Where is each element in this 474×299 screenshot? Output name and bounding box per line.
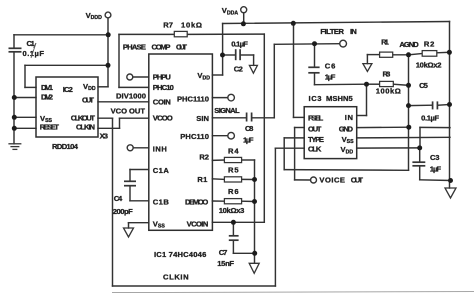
- svg-text:DIV1000: DIV1000: [116, 92, 146, 101]
- svg-text:IC1 74HC4046: IC1 74HC4046: [154, 250, 206, 259]
- svg-text:200pF: 200pF: [113, 207, 133, 216]
- svg-text:10kΩx3: 10kΩx3: [219, 206, 245, 215]
- svg-text:VOICE: VOICE: [319, 176, 345, 185]
- svg-text:C8: C8: [245, 124, 253, 133]
- svg-text:R5: R5: [228, 166, 239, 175]
- svg-text:FSEL: FSEL: [308, 113, 324, 122]
- svg-text:DIV2: DIV2: [41, 92, 53, 101]
- svg-text:DIV1: DIV1: [41, 83, 54, 92]
- svg-text:AGND: AGND: [399, 40, 419, 49]
- svg-text:0.1µF: 0.1µF: [421, 113, 439, 122]
- svg-text:100kΩ: 100kΩ: [376, 86, 401, 95]
- svg-text:R4: R4: [228, 147, 239, 156]
- svg-text:R6: R6: [228, 187, 239, 196]
- svg-text:PHASE: PHASE: [123, 42, 146, 51]
- svg-text:FILTER: FILTER: [320, 27, 344, 36]
- svg-text:RESET: RESET: [40, 122, 60, 131]
- svg-text:PHC10: PHC10: [153, 83, 174, 92]
- svg-text:MSHN5: MSHN5: [326, 94, 353, 103]
- svg-text:CLK: CLK: [308, 145, 322, 154]
- svg-text:IN: IN: [345, 113, 353, 122]
- svg-text:C5: C5: [419, 81, 429, 90]
- svg-text:PHPU: PHPU: [153, 72, 172, 81]
- svg-text:15nF: 15nF: [217, 259, 234, 268]
- svg-text:X3: X3: [100, 132, 108, 141]
- svg-text:VCO OUT: VCO OUT: [111, 107, 146, 116]
- svg-text:GND: GND: [339, 124, 354, 133]
- svg-text:IC3: IC3: [309, 94, 322, 103]
- svg-text:1µF: 1µF: [430, 165, 442, 174]
- svg-text:CLKIN: CLKIN: [163, 273, 189, 282]
- svg-text:IC2: IC2: [63, 85, 73, 94]
- svg-text:1µF: 1µF: [243, 135, 254, 144]
- svg-text:OUT: OUT: [308, 124, 322, 133]
- svg-text:CLKOUT: CLKOUT: [71, 113, 96, 122]
- svg-text:PHC110: PHC110: [180, 132, 209, 141]
- svg-text:C3: C3: [430, 153, 440, 162]
- svg-text:PHC1110: PHC1110: [177, 95, 209, 104]
- svg-text:1µF: 1µF: [325, 72, 336, 81]
- svg-text:VCOIN: VCOIN: [187, 219, 209, 228]
- svg-text:CLKIN: CLKIN: [76, 122, 95, 131]
- svg-text:INH: INH: [153, 144, 167, 153]
- svg-text:C6: C6: [325, 61, 336, 70]
- svg-text:COIN: COIN: [153, 97, 171, 106]
- svg-text:R1: R1: [381, 37, 390, 46]
- svg-text:SIN: SIN: [196, 114, 209, 123]
- svg-text:C1A: C1A: [153, 166, 170, 175]
- svg-text:TYPE: TYPE: [308, 135, 324, 144]
- svg-text:R1: R1: [197, 175, 208, 184]
- svg-text:R7: R7: [163, 20, 173, 29]
- svg-text:C4: C4: [114, 194, 123, 203]
- svg-text:RDD104: RDD104: [52, 142, 79, 151]
- svg-text:IN: IN: [350, 27, 357, 36]
- svg-text:COMP: COMP: [152, 42, 171, 51]
- svg-text:0.1µF: 0.1µF: [231, 39, 248, 48]
- svg-text:10kΩx2: 10kΩx2: [416, 60, 442, 69]
- svg-text:SIGNAL: SIGNAL: [214, 106, 240, 115]
- svg-text:10kΩ: 10kΩ: [181, 20, 202, 29]
- svg-text:R2: R2: [424, 39, 435, 48]
- svg-text:OUT: OUT: [351, 176, 364, 185]
- svg-text:R3: R3: [383, 70, 391, 79]
- svg-text:C7: C7: [219, 248, 228, 257]
- svg-text:C2: C2: [234, 65, 243, 74]
- svg-text:DEMOO: DEMOO: [185, 198, 208, 207]
- svg-text:C1B: C1B: [153, 197, 170, 206]
- svg-text:OUT: OUT: [176, 42, 187, 51]
- svg-text:VCOO: VCOO: [153, 113, 173, 122]
- svg-text:OUT: OUT: [82, 95, 94, 104]
- svg-text:R2: R2: [199, 152, 209, 161]
